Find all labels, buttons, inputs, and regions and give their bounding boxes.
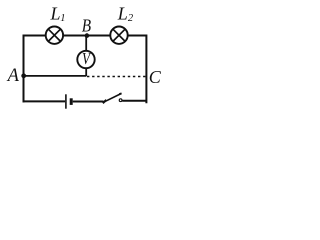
svg-text:2: 2 bbox=[128, 13, 134, 24]
svg-text:C: C bbox=[149, 67, 162, 87]
wire dashed to C bbox=[87, 76, 145, 78]
wire left bbox=[23, 35, 25, 103]
svg-text:1: 1 bbox=[60, 13, 65, 24]
wire voltmeter bottom lead bbox=[85, 68, 87, 76]
battery plate short bbox=[70, 98, 73, 105]
wire voltmeter top lead bbox=[85, 36, 87, 53]
switch lever tip tick bbox=[119, 92, 121, 95]
voltmeter U1 bbox=[77, 51, 94, 69]
label B bbox=[82, 16, 91, 36]
svg-text:A: A bbox=[6, 66, 20, 86]
switch lever bbox=[104, 94, 121, 103]
node B dot bbox=[85, 33, 90, 38]
svg-text:L: L bbox=[117, 4, 128, 24]
wire switch to right corner bbox=[122, 100, 146, 102]
wire right bbox=[145, 35, 147, 104]
wire A to voltmeter bbox=[24, 75, 87, 77]
wire battery to switch bbox=[73, 101, 104, 103]
switch contact circle bbox=[119, 99, 122, 102]
svg-text:B: B bbox=[82, 16, 91, 36]
wire bottom-left to battery bbox=[23, 100, 66, 102]
node A dot bbox=[21, 73, 26, 78]
svg-text:L: L bbox=[50, 4, 61, 24]
battery plate long bbox=[65, 94, 67, 108]
switch hinge tick bbox=[103, 100, 107, 103]
lamp L2 bbox=[110, 27, 127, 44]
lamp L1 bbox=[46, 27, 63, 44]
wire top bbox=[24, 35, 147, 37]
